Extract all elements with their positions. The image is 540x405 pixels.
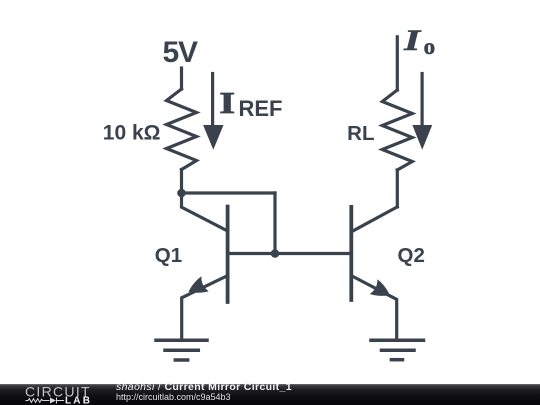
transistor Q2	[351, 207, 397, 340]
svg-text:LAB: LAB	[65, 396, 92, 405]
svg-text:I: I	[219, 86, 235, 120]
resistor RL	[382, 90, 412, 170]
resistor R1	[167, 89, 197, 170]
wire RL bottom to Q2 collector	[396, 170, 399, 207]
transistor Q1	[182, 193, 228, 340]
node B junction dot	[271, 249, 280, 258]
footer title text	[116, 384, 292, 402]
label I o	[403, 24, 435, 59]
svg-text:Q1: Q1	[155, 244, 182, 267]
wire 5V to R1 top	[180, 68, 183, 89]
current arrow Io	[412, 74, 432, 150]
svg-text:5V: 5V	[163, 36, 198, 69]
CircuitLab logo	[0, 384, 100, 405]
footer bar	[0, 384, 540, 405]
svg-text:o: o	[424, 34, 436, 59]
wire R1 bottom to node A	[180, 170, 183, 194]
wire bus corner down to node B	[273, 193, 276, 254]
wire base rail Q1 to Q2	[228, 252, 352, 255]
svg-text:Q2: Q2	[398, 244, 425, 267]
svg-text:10 kΩ: 10 kΩ	[103, 122, 161, 145]
wire top to RL	[396, 37, 399, 90]
ground GND1	[156, 340, 207, 360]
node A junction dot	[177, 189, 186, 198]
wire node A to bus corner	[182, 191, 276, 194]
label I REF	[219, 86, 282, 121]
ground GND2	[371, 340, 424, 360]
svg-text:REF: REF	[239, 96, 283, 121]
svg-text:RL: RL	[347, 122, 374, 145]
svg-text:I: I	[403, 24, 422, 57]
current arrow IREF	[203, 74, 223, 150]
